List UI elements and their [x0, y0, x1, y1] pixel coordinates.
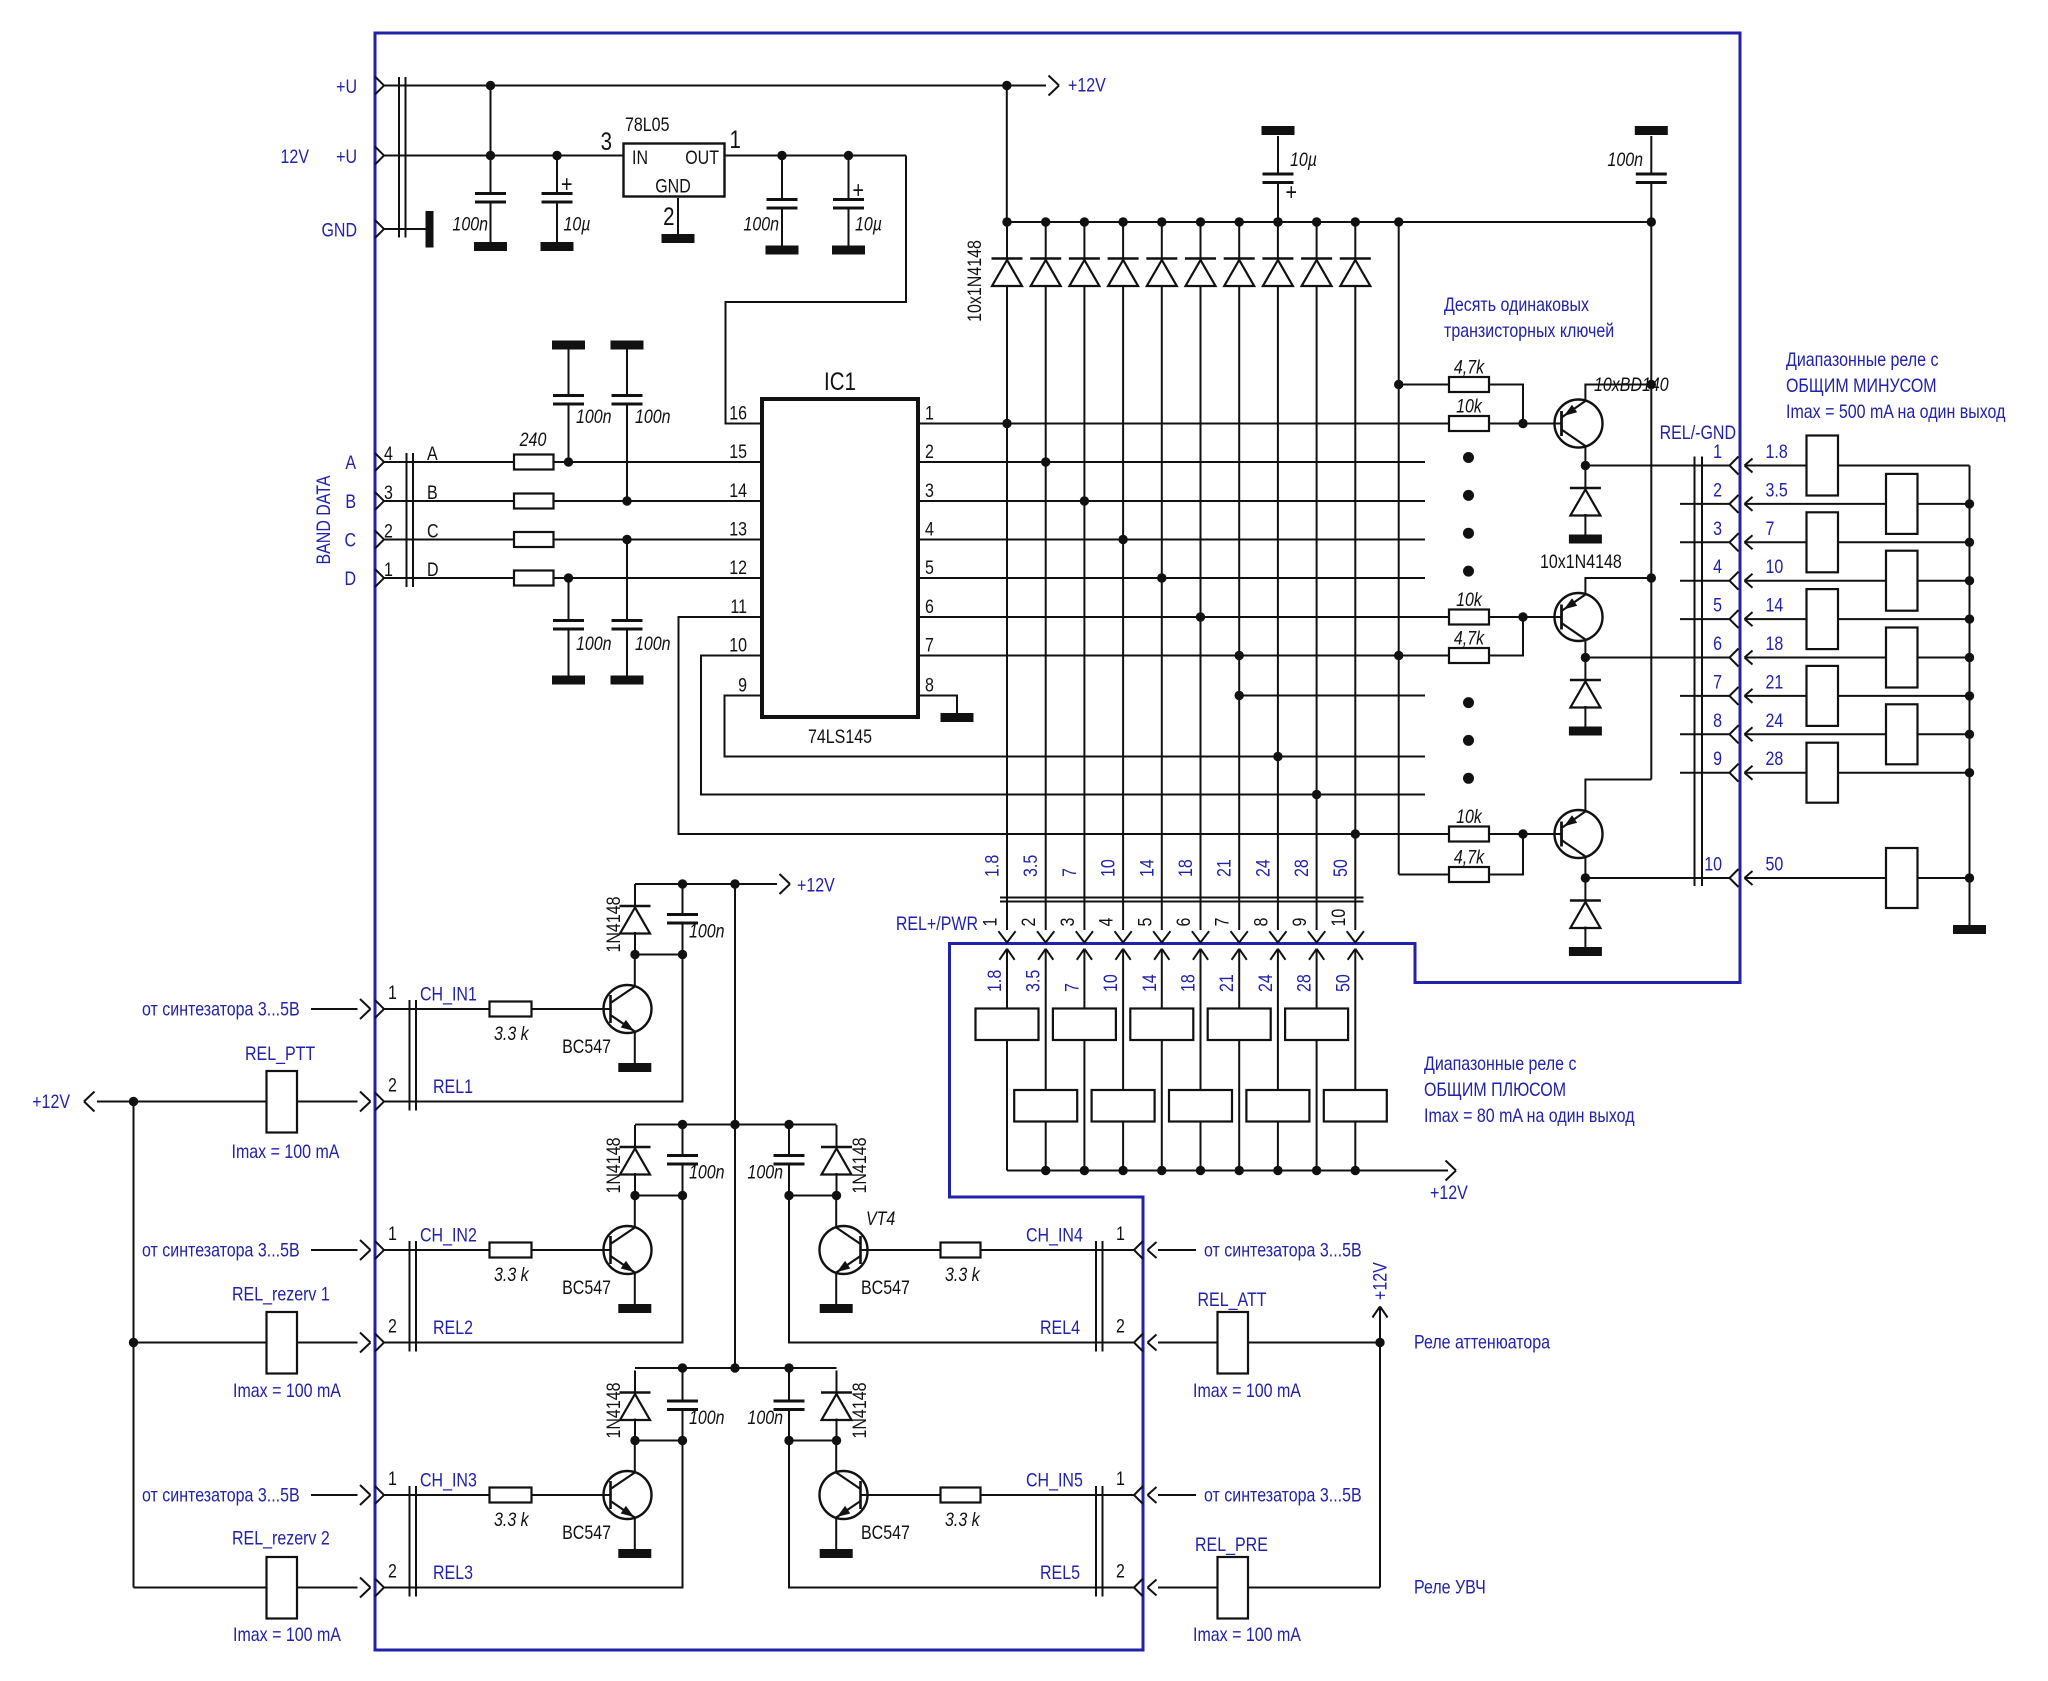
svg-text:15: 15	[729, 441, 747, 463]
svg-text:14: 14	[1136, 859, 1158, 877]
wire D to IC1	[554, 577, 763, 579]
node cap 2	[678, 1191, 687, 1200]
node +U/C1	[486, 81, 495, 90]
wire collector Q1	[634, 955, 636, 987]
svg-text:14: 14	[1766, 594, 1784, 616]
svg-text:10k: 10k	[1456, 395, 1483, 417]
svg-text:1.8: 1.8	[981, 855, 1003, 877]
node cap VT4	[784, 1191, 793, 1200]
wire от синтезатора (right 5)	[1148, 1487, 1157, 1503]
relay 50 (common plus)	[1324, 1090, 1387, 1122]
wire REL4	[789, 1196, 1134, 1343]
connector pin +U (12V input)	[375, 147, 384, 165]
wire arrow into relay module 21	[1232, 949, 1247, 960]
ground (flyback diode)	[1569, 947, 1602, 956]
svg-text:10: 10	[1766, 556, 1784, 578]
svg-text:ОБЩИМ МИНУСОМ: ОБЩИМ МИНУСОМ	[1786, 375, 1937, 397]
svg-text:GND: GND	[321, 219, 357, 241]
wire collector to REL/-GND pin	[1585, 657, 1729, 659]
svg-text:+: +	[1286, 178, 1297, 205]
relay 24 (common minus)	[1886, 704, 1918, 764]
svg-text:BC547: BC547	[562, 1522, 611, 1544]
svg-text:9: 9	[1713, 748, 1722, 770]
cable bundle (REL/-GND)	[1694, 457, 1696, 887]
svg-text:+12V: +12V	[797, 874, 835, 896]
svg-text:7: 7	[1061, 983, 1083, 992]
node collector	[1581, 461, 1590, 470]
resistor 240 (B line)	[514, 494, 554, 509]
diode D9 1N4148 (clamp column 9)	[1312, 217, 1321, 226]
wire collector to output node	[1584, 446, 1586, 466]
svg-text:8: 8	[925, 674, 934, 696]
svg-text:1: 1	[1116, 1223, 1125, 1245]
wire column 1.8 to relay	[1006, 949, 1008, 1009]
node diode/collector 2	[630, 1191, 639, 1200]
connector pin 2 REL4	[1134, 1334, 1143, 1352]
svg-text:10µ: 10µ	[1290, 149, 1317, 171]
wire B to IC1	[554, 500, 763, 502]
wire C1 vertical	[490, 86, 492, 194]
svg-text:+12V: +12V	[1068, 74, 1106, 96]
capacitor C2 10µ	[556, 156, 558, 194]
svg-text:7: 7	[1058, 868, 1080, 877]
node C3	[777, 151, 786, 160]
wire IC1 output 8 (pin 9, routed under IC)	[725, 696, 1426, 757]
svg-text:1: 1	[388, 1468, 397, 1490]
svg-text:REL_rezerv 1: REL_rezerv 1	[232, 1283, 330, 1306]
relay REL_rezerv 1	[267, 1312, 298, 1374]
svg-text:C: C	[427, 520, 439, 542]
resistor 4,7k (pull-up)	[1449, 648, 1489, 663]
svg-text:+12V: +12V	[32, 1091, 70, 1113]
wire CH_IN2 to resistor	[384, 1249, 490, 1251]
svg-text:100n: 100n	[689, 920, 725, 942]
svg-text:BC547: BC547	[562, 1036, 611, 1058]
svg-text:CH_IN4: CH_IN4	[1026, 1224, 1083, 1247]
svg-text:18: 18	[1175, 859, 1197, 877]
connector pin 1 REL/-GND	[1730, 457, 1739, 475]
transistor VT4 BC547 (mirrored)	[820, 1226, 868, 1274]
svg-text:от синтезатора 3...5В: от синтезатора 3...5В	[1204, 1239, 1362, 1261]
capacitor C1 100n	[475, 194, 506, 203]
wire net D to resistor	[384, 577, 514, 579]
ground Q3	[618, 1549, 651, 1558]
svg-text:10xBD140: 10xBD140	[1594, 374, 1669, 396]
svg-text:B: B	[345, 491, 356, 513]
svg-text:11: 11	[730, 596, 747, 618]
svg-text:1: 1	[388, 982, 397, 1004]
wire +12V distribution vertical	[734, 884, 736, 1368]
ground C7	[552, 676, 585, 685]
wire IC1 output 10 (pin 11, routed under IC)	[679, 617, 1450, 834]
wire +12V rail top	[384, 85, 1007, 87]
relay 7 (common minus)	[1807, 512, 1839, 572]
diode flyback 1N4148	[1584, 466, 1586, 489]
svg-text:REL_ATT: REL_ATT	[1198, 1289, 1267, 1312]
svg-text:21: 21	[1213, 859, 1235, 877]
node +12V bus col 6	[1196, 1166, 1205, 1175]
wire IC1 output 1 row	[918, 423, 1449, 425]
wire base Q1	[532, 1008, 611, 1010]
svg-text:2: 2	[925, 441, 934, 463]
node +12V REL_rezerv1	[129, 1338, 138, 1347]
wire REL_PTT to connector	[297, 1101, 358, 1103]
wire IC1 output 4 row	[918, 539, 1425, 541]
svg-text:7: 7	[1211, 918, 1233, 927]
wire to relay 14	[1745, 612, 1753, 626]
wire collector to output node	[1584, 640, 1586, 658]
svg-text:5: 5	[925, 557, 934, 579]
node cap VT5	[784, 1436, 793, 1445]
relay 24 (common plus)	[1246, 1090, 1309, 1122]
wire base Q2	[532, 1249, 611, 1251]
wire arrow into relay module 14	[1154, 949, 1169, 960]
wire collector VT5	[835, 1441, 837, 1473]
svg-text:1N4148: 1N4148	[603, 896, 625, 952]
svg-text:16: 16	[729, 402, 747, 424]
svg-text:REL/-GND: REL/-GND	[1660, 422, 1737, 444]
resistor 240 (D line)	[514, 571, 554, 586]
wire base	[1489, 423, 1562, 425]
node +12V left	[129, 1097, 138, 1106]
wire 78L05 pin2 to ground	[677, 198, 679, 234]
svg-text:10x1N4148: 10x1N4148	[964, 240, 986, 322]
relay REL_PTT	[267, 1071, 298, 1133]
capacitor 100n (channel 5)	[788, 1371, 790, 1402]
wire +12V rail (channel 2)	[635, 1124, 837, 1126]
svg-text:14: 14	[1138, 974, 1160, 992]
wire +12V column to 4,7k Q10	[1399, 874, 1449, 876]
svg-text:Imax = 100 mA: Imax = 100 mA	[1193, 1624, 1301, 1646]
wire REL1	[384, 955, 683, 1102]
svg-text:1: 1	[925, 402, 934, 424]
svg-text:4,7k: 4,7k	[1454, 356, 1485, 378]
resistor 3.3k (channel 5)	[941, 1488, 981, 1503]
node diode VT5	[832, 1436, 841, 1445]
ground C3	[766, 246, 799, 255]
cable bundle (power connector)	[398, 77, 400, 238]
wire REL3	[384, 1441, 683, 1588]
wire +12V diode bus	[1007, 221, 1652, 223]
connector pin 2 REL1	[375, 1093, 384, 1111]
wire от синтезатора (right 4)	[1148, 1242, 1157, 1258]
wire +12V rail (channel 1)	[635, 883, 777, 885]
svg-text:REL5: REL5	[1040, 1562, 1080, 1584]
ground C4	[832, 246, 865, 255]
wire REL2	[384, 1196, 683, 1343]
svg-text:3: 3	[601, 127, 612, 155]
relay 21 (common minus)	[1807, 666, 1839, 726]
resistor 4,7k (pull-up)	[1449, 377, 1489, 392]
diode D10 1N4148 (clamp column 10)	[1351, 217, 1360, 226]
node collector	[1581, 653, 1590, 662]
node C7 on D	[564, 573, 573, 582]
wire +12V right vertical	[1372, 1307, 1387, 1318]
svg-text:21: 21	[1216, 974, 1238, 992]
wire IC1 output 9 (pin 10, routed under IC)	[701, 656, 1425, 795]
svg-text:4: 4	[1095, 918, 1117, 927]
resistor 10k (base)	[1449, 416, 1489, 431]
node emitter Q6	[1647, 573, 1656, 582]
wire CH_IN5	[981, 1494, 1135, 1496]
svg-text:8: 8	[1713, 709, 1722, 731]
wire 4,7k to base node	[1489, 617, 1523, 656]
wire to relay 50	[1745, 871, 1753, 885]
capacitor 100n (channel 1)	[682, 884, 684, 915]
wire column 28 to relay	[1316, 949, 1318, 1009]
wire base VT4	[861, 1249, 941, 1251]
resistor 3.3k (channel 3)	[490, 1488, 532, 1503]
wire 5V to IC1 pin 16	[726, 156, 907, 424]
svg-text:BC547: BC547	[861, 1522, 910, 1544]
node +12V bus col 9	[1312, 1166, 1321, 1175]
diode D5 1N4148 (clamp column 5)	[1157, 217, 1166, 226]
capacitor C6 100n	[626, 350, 628, 396]
connector pin 4 REL/-GND	[1680, 580, 1729, 582]
svg-text:+U: +U	[336, 146, 357, 168]
transistor Q2 BC547	[604, 1226, 652, 1274]
wire net C to resistor	[384, 539, 514, 541]
svg-text:Диапазонные реле с: Диапазонные реле с	[1424, 1053, 1577, 1075]
svg-text:1: 1	[1713, 441, 1722, 463]
svg-text:8: 8	[1250, 918, 1272, 927]
transistor BD140 (PNP)	[1555, 593, 1603, 641]
node +12V bus col 10	[1351, 1166, 1360, 1175]
svg-text:7: 7	[925, 634, 934, 656]
ground Q1	[618, 1063, 651, 1072]
capacitor 100n (channel 3)	[682, 1371, 684, 1402]
svg-text:10µ: 10µ	[564, 213, 591, 235]
resistor 10k (base)	[1449, 610, 1489, 625]
svg-text:6: 6	[1173, 918, 1195, 927]
node C6 on B	[622, 496, 631, 505]
svg-text:Реле аттенюатора: Реле аттенюатора	[1414, 1331, 1550, 1353]
wire node VT4	[789, 1195, 837, 1197]
svg-text:13: 13	[729, 518, 747, 540]
capacitor C4 10µ	[848, 156, 850, 200]
connector pin 1 CH_IN1	[375, 1000, 384, 1018]
resistor 10k (base)	[1449, 827, 1489, 842]
wire CH_IN3 to resistor	[384, 1494, 490, 1496]
connector pin 1 CH_IN3	[375, 1486, 384, 1504]
wire 4,7k to base node	[1489, 834, 1523, 875]
wire A to IC1	[554, 461, 763, 463]
node relay 14 to ground rail	[1965, 614, 1974, 623]
svg-text:10x1N4148: 10x1N4148	[1540, 551, 1622, 573]
node C1 on 12V line	[486, 151, 495, 160]
wire base tap column 7	[1239, 695, 1425, 697]
capacitor 100n (channel 2)	[682, 1125, 684, 1156]
ground C1	[474, 242, 507, 251]
wire to relay 24	[1745, 727, 1753, 741]
svg-text:+: +	[853, 176, 864, 203]
svg-text:B: B	[427, 482, 438, 504]
wire column 18 to relay	[1200, 949, 1202, 1090]
node +12V REL_ATT	[1375, 1338, 1384, 1347]
connector pin 3 BAND DATA B	[375, 492, 384, 510]
svg-text:100n: 100n	[452, 213, 488, 235]
wire relay 24 to +12V bus	[1277, 1122, 1279, 1171]
svg-text:4,7k: 4,7k	[1454, 846, 1485, 868]
svg-text:5: 5	[1713, 594, 1722, 616]
wire relay 7 to +12V bus	[1083, 1040, 1085, 1171]
svg-text:78L05: 78L05	[625, 114, 670, 136]
transistor VT5 BC547 (mirrored)	[820, 1471, 868, 1519]
svg-text:12: 12	[729, 557, 747, 579]
svg-text:REL2: REL2	[433, 1317, 473, 1339]
relay 3.5 (common plus)	[1014, 1090, 1077, 1122]
svg-text:100n: 100n	[576, 406, 612, 428]
wire emitter Q1 to ground	[634, 1032, 636, 1064]
svg-text:3.3 k: 3.3 k	[945, 1509, 981, 1531]
svg-text:REL_PTT: REL_PTT	[245, 1043, 315, 1066]
node cap 3	[678, 1436, 687, 1445]
ground C2	[541, 242, 574, 251]
connector pin 6 REL/-GND	[1730, 649, 1739, 667]
wire +12V to 4,7k	[1399, 384, 1449, 386]
ground (flyback diode)	[1569, 727, 1602, 736]
svg-text:GND: GND	[655, 175, 691, 197]
node cap 1	[678, 950, 687, 959]
wire relay 18 to +12V bus	[1200, 1122, 1202, 1171]
svg-text:C: C	[344, 529, 356, 551]
wire emitter Q3 to ground	[634, 1518, 636, 1550]
ground VT4	[820, 1304, 853, 1313]
ground Q2	[618, 1304, 651, 1313]
svg-text:Imax = 100 mA: Imax = 100 mA	[232, 1141, 340, 1163]
diode flyback 1N4148	[1584, 658, 1586, 681]
wire 5V output	[725, 155, 907, 157]
wire IC1 output 5 row	[918, 577, 1425, 579]
svg-text:+U: +U	[336, 76, 357, 98]
svg-text:Imax = 500 mA на один выход: Imax = 500 mA на один выход	[1786, 401, 2006, 423]
svg-text:2: 2	[388, 1315, 397, 1337]
wire to relay 18	[1745, 651, 1753, 665]
wire arrow into relay module 28	[1309, 949, 1324, 960]
node bus / +12V pull-up column	[1394, 217, 1403, 226]
node +12V bus col 4	[1118, 1166, 1127, 1175]
svg-text:Диапазонные реле с: Диапазонные реле с	[1786, 349, 1939, 371]
transistor Q3 BC547	[604, 1471, 652, 1519]
svg-text:BC547: BC547	[861, 1277, 910, 1299]
svg-text:3.3 k: 3.3 k	[494, 1023, 530, 1045]
wire column 3.5 to relay	[1045, 949, 1047, 1090]
svg-text:7: 7	[1713, 671, 1722, 693]
wire base Q3	[532, 1494, 611, 1496]
diode D3 1N4148 (clamp column 3)	[1080, 217, 1089, 226]
svg-text:3.5: 3.5	[1020, 855, 1042, 877]
svg-text:4: 4	[1713, 556, 1722, 578]
capacitor C8 100n (bottom)	[626, 540, 628, 621]
svg-text:+: +	[561, 170, 572, 197]
resistor 3.3k (channel 4)	[941, 1243, 981, 1258]
wire arrow into relay module 1.8	[999, 949, 1014, 960]
wire relay 28 to +12V bus	[1316, 1040, 1318, 1171]
svg-text:от синтезатора 3...5В: от синтезатора 3...5В	[142, 998, 300, 1020]
connector pin 1 CH_IN5	[1134, 1486, 1143, 1504]
wire column 10 to relay	[1122, 949, 1124, 1090]
node relay 3.5 to ground rail	[1965, 499, 1974, 508]
wire arrow into relay module 7	[1077, 949, 1092, 960]
wire от синтезатора row 1	[311, 1008, 358, 1010]
node +12V bus col 3	[1080, 1166, 1089, 1175]
resistor 4,7k (pull-up)	[1449, 867, 1489, 882]
svg-text:10: 10	[1100, 974, 1122, 992]
connector pin 2 REL3	[375, 1579, 384, 1597]
svg-text:10k: 10k	[1456, 589, 1483, 611]
wire IC1 output 7 row	[918, 655, 1449, 657]
svg-text:от синтезатора 3...5В: от синтезатора 3...5В	[1204, 1484, 1362, 1506]
wire collector to output node	[1584, 857, 1586, 879]
wire net A to resistor	[384, 461, 514, 463]
svg-text:1N4148: 1N4148	[849, 1382, 871, 1438]
svg-text:2: 2	[663, 202, 674, 230]
svg-text:1.8: 1.8	[984, 970, 1006, 992]
svg-text:IN: IN	[632, 147, 648, 169]
node emitter Q1	[1647, 380, 1656, 389]
relay 1.8 (common minus)	[1807, 436, 1839, 496]
node relay 18 to ground rail	[1965, 653, 1974, 662]
connector pin 3 REL/-GND	[1680, 541, 1729, 543]
svg-text:74LS145: 74LS145	[808, 726, 872, 748]
wire column 7 to relay	[1083, 949, 1085, 1009]
node C8 on C	[622, 535, 631, 544]
svg-text:3: 3	[925, 480, 934, 502]
wire collector Q3	[634, 1441, 636, 1473]
wire +12V arrow (top right)	[1007, 85, 1046, 87]
capacitor C3 100n	[781, 156, 783, 200]
svg-text:1N4148: 1N4148	[849, 1137, 871, 1193]
wire +12V node row 2	[635, 1195, 683, 1197]
svg-text:1.8: 1.8	[1766, 441, 1788, 463]
wire node VT5	[789, 1440, 837, 1442]
svg-text:1N4148: 1N4148	[603, 1382, 625, 1438]
svg-text:OUT: OUT	[685, 147, 719, 169]
resistor 3.3k (channel 1)	[490, 1002, 532, 1017]
connector pin 2 REL5	[1134, 1579, 1143, 1597]
svg-text:9: 9	[738, 674, 747, 696]
connector pin 10 REL/-GND	[1730, 869, 1739, 887]
wire collector to REL/-GND pin	[1585, 465, 1729, 467]
wire +12V bus (relay module)	[1007, 1170, 1448, 1172]
node diode VT4	[832, 1191, 841, 1200]
wire emitter VT4 to ground	[835, 1273, 837, 1305]
svg-text:3.3 k: 3.3 k	[494, 1264, 530, 1286]
wire base VT5	[861, 1494, 941, 1496]
wire IC1 output 2 row	[918, 461, 1425, 463]
relay 28 (common plus)	[1285, 1009, 1348, 1041]
svg-text:Реле УВЧ: Реле УВЧ	[1414, 1576, 1486, 1598]
svg-text:9: 9	[1289, 918, 1311, 927]
node relay 21 to ground rail	[1965, 691, 1974, 700]
svg-text:3: 3	[1713, 517, 1722, 539]
wire base	[1489, 616, 1562, 618]
svg-text:10: 10	[1704, 853, 1722, 875]
ellipsis dots (keys 7..9)	[1463, 697, 1474, 708]
connector pin 9 REL/-GND	[1680, 772, 1729, 774]
wire CH_IN1 to resistor	[384, 1008, 490, 1010]
wire collector Q2	[634, 1196, 636, 1228]
relay 50 (common minus)	[1886, 848, 1918, 908]
ellipsis dots (keys 2..5)	[1463, 452, 1474, 463]
relay 3.5 (common minus)	[1886, 474, 1918, 534]
svg-text:24: 24	[1254, 974, 1276, 992]
wire +12V node row 3	[635, 1440, 683, 1442]
svg-text:ОБЩИМ ПЛЮСОМ: ОБЩИМ ПЛЮСОМ	[1424, 1079, 1566, 1101]
node base	[1518, 612, 1527, 621]
svg-text:10: 10	[1097, 859, 1119, 877]
relay 28 (common minus)	[1807, 743, 1839, 803]
